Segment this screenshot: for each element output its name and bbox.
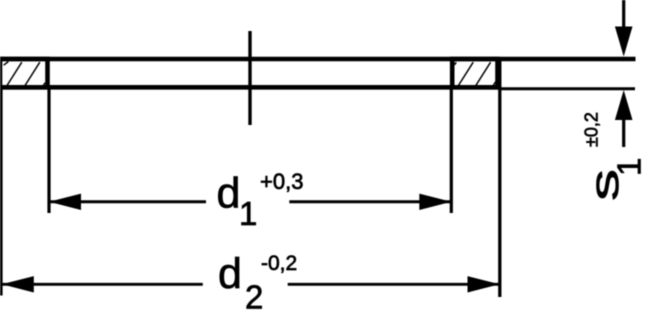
arrowhead d1 left	[49, 194, 81, 210]
center line	[248, 31, 251, 125]
extension line d1 left	[47, 88, 50, 213]
label s1 rotated with tolerance ±0,2	[582, 112, 648, 201]
svg-text:1: 1	[239, 195, 257, 232]
washer bottom surface line	[0, 85, 500, 90]
section box left (cut material)	[0, 59, 48, 87]
dimension line d2 left segment	[2, 283, 203, 286]
svg-text:-0,2: -0,2	[261, 252, 297, 275]
arrowhead d1 right	[419, 194, 451, 210]
hatch lines right box	[455, 62, 496, 85]
section box right (cut material)	[452, 59, 497, 87]
svg-text:±0,2: ±0,2	[582, 112, 602, 147]
dimension line d2 right segment	[288, 283, 500, 286]
dimension line d1 left segment	[49, 200, 206, 203]
arrowhead s1 lower (points up)	[615, 90, 633, 120]
svg-text:2: 2	[245, 279, 263, 316]
svg-text:d: d	[217, 170, 241, 218]
svg-text:+0,3: +0,3	[260, 169, 303, 194]
dimension line s1 lower	[622, 119, 625, 147]
svg-text:1: 1	[611, 158, 648, 176]
dimension line d1 right segment	[289, 200, 451, 203]
arrowhead d2 left	[2, 276, 34, 292]
washer top surface line	[0, 57, 636, 62]
hatch lines left box	[4, 62, 46, 86]
extension line d2 right	[498, 57, 501, 297]
dimension line s1 upper	[622, 0, 625, 27]
extension line s1 bottom (right of washer)	[500, 87, 635, 90]
svg-text:d: d	[218, 250, 242, 298]
arrowhead d2 right	[468, 276, 500, 292]
extension line d1 right	[450, 88, 453, 213]
extension line d2 left	[0, 88, 3, 296]
arrowhead s1 upper (points down)	[615, 27, 633, 57]
